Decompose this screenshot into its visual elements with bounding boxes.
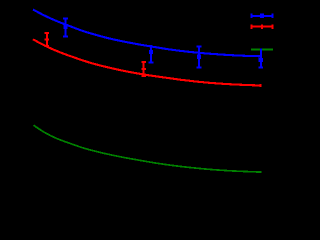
- red curve (series 2 fit line): [33, 39, 262, 85]
- legend sample: green series plain line: [251, 49, 273, 51]
- blue errorbar point 3: [197, 47, 202, 68]
- legend sample: red series with errorbar style: [251, 24, 273, 29]
- blue errorbar point 1: [63, 18, 68, 36]
- legend sample: blue series with errorbar style: [251, 14, 273, 19]
- blue errorbar point 4: [259, 48, 264, 67]
- red point 3 (clipped at right border): [259, 84, 261, 87]
- blue errorbar point 2: [149, 45, 154, 62]
- red errorbar point 1: [45, 33, 50, 46]
- blue curve (series 1 fit line): [33, 10, 262, 57]
- green curve (series 3 fit line): [34, 125, 262, 172]
- red errorbar point 2: [141, 62, 146, 76]
